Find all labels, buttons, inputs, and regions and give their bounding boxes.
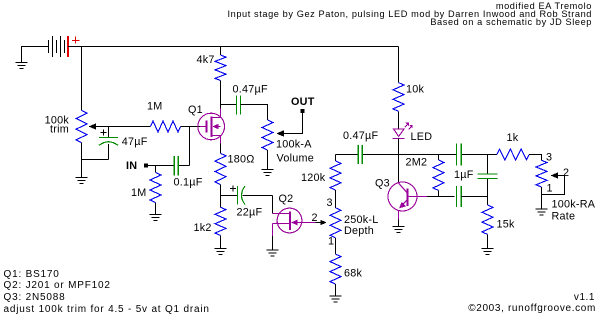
svg-text:Depth: Depth <box>344 225 374 237</box>
wire IN to cap <box>148 165 175 167</box>
resistor 10k <box>393 83 404 112</box>
svg-text:15k: 15k <box>497 219 516 231</box>
label 47uF <box>122 136 148 148</box>
version label bottom right <box>574 293 595 303</box>
resistor 120k <box>330 161 341 190</box>
label 250k-L <box>344 214 379 226</box>
svg-text:68k: 68k <box>344 268 363 280</box>
label 2M2 <box>406 157 428 169</box>
svg-text:1: 1 <box>547 183 553 195</box>
ground under 1M shunt <box>150 203 162 221</box>
svg-text:1: 1 <box>328 235 334 247</box>
ground under Q2 <box>267 236 279 256</box>
input terminal dot <box>144 164 148 168</box>
wire cap to volume pot <box>241 105 268 121</box>
label 4k7 <box>197 54 215 66</box>
svg-text:OUT: OUT <box>291 96 315 108</box>
label 3 (depth) <box>327 197 333 209</box>
capacitor C phase bottom (base) <box>457 186 462 207</box>
capacitor C phase middle (vertical) <box>478 174 498 179</box>
label 3 (rate) <box>546 152 552 164</box>
wire 1M to Q1 gate <box>181 126 201 128</box>
label Q1 <box>188 104 203 116</box>
label Volume <box>277 152 315 164</box>
svg-text:0.47µF: 0.47µF <box>233 83 268 95</box>
svg-text:LED: LED <box>411 131 433 143</box>
svg-text:2: 2 <box>312 212 318 224</box>
transistor Q3 2N5088 <box>388 182 427 220</box>
svg-text:Rate: Rate <box>552 210 576 222</box>
resistor 15k <box>482 205 493 234</box>
label 1 (depth) <box>328 235 334 247</box>
svg-text:2M2: 2M2 <box>406 157 428 169</box>
wire V+ rail <box>68 46 399 48</box>
label 120k <box>301 172 326 184</box>
svg-text:Q1: Q1 <box>188 104 203 116</box>
potentiometer 100k-A Volume <box>262 120 273 150</box>
svg-text:100k-A: 100k-A <box>276 139 312 151</box>
label 22uF <box>237 207 263 219</box>
capacitor C 22uF electrolytic <box>230 186 273 205</box>
label Rate <box>552 210 576 222</box>
svg-text:1k2: 1k2 <box>194 222 212 234</box>
ground under Q3 <box>393 220 405 233</box>
capacitor C 47uF electrolytic <box>99 127 118 160</box>
label 180R <box>228 154 255 166</box>
wire battery minus lead <box>21 46 48 48</box>
wire 120k to depth <box>335 190 337 208</box>
wire gate junction down <box>179 127 190 166</box>
ground under rate pot <box>536 195 548 216</box>
rate wiper arrow / return wire <box>542 172 565 194</box>
ground under 1k2 <box>215 235 227 254</box>
svg-text:Volume: Volume <box>277 152 315 164</box>
capacitor C 0.1uF <box>174 156 178 176</box>
ground under 68k <box>330 284 342 302</box>
label 1uF <box>454 169 474 181</box>
label 100k trim <box>45 115 70 136</box>
svg-text:47µF: 47µF <box>122 136 148 148</box>
resistor 1M (input shunt) <box>150 166 161 203</box>
wire 10k to LED <box>398 111 400 129</box>
ground under 15k <box>482 234 494 254</box>
wire Q1 drain to node <box>220 105 222 109</box>
svg-text:3: 3 <box>546 152 552 164</box>
ground (battery minus) <box>16 47 28 69</box>
wire 180R to 1k2 <box>220 185 222 208</box>
wire Q3 base line <box>427 196 455 198</box>
wire Q2 gate to depth wiper <box>316 220 327 226</box>
notes block bottom left <box>4 269 210 317</box>
svg-text:3: 3 <box>327 197 333 209</box>
label 68k <box>344 268 363 280</box>
svg-text:Q3: Q3 <box>375 178 390 190</box>
wire Q1 source to 180R <box>220 144 222 154</box>
volume wiper arrow / OUT wire <box>276 111 302 137</box>
svg-text:0.1µF: 0.1µF <box>174 176 203 188</box>
title block top right <box>227 2 592 27</box>
wire bus node down <box>487 155 489 206</box>
resistor 4k7 <box>215 47 226 105</box>
ground under volume <box>262 150 274 176</box>
label 100k-A <box>276 139 312 151</box>
label 10k <box>406 84 425 96</box>
capacitor C 0.47uF (output) <box>237 95 241 114</box>
battery plus sign (red) <box>72 37 80 44</box>
capacitor C phase top (bus) <box>457 144 462 166</box>
copyright bottom right <box>468 304 596 314</box>
label Depth <box>344 225 374 237</box>
wire drain node to cap <box>221 104 237 106</box>
wire rail to trim <box>81 47 83 111</box>
wire bus to 1k <box>488 154 497 156</box>
svg-text:180Ω: 180Ω <box>228 154 255 166</box>
wire depth to 68k <box>335 238 337 254</box>
potentiometer 100k-RA Rate <box>536 160 547 187</box>
battery plus plate (red) <box>67 36 69 57</box>
label 0.47uF output <box>233 83 268 95</box>
label LED <box>411 131 433 143</box>
OUT terminal dot <box>301 109 305 113</box>
wire LFO bus <box>336 154 488 156</box>
label 1M shunt <box>131 187 147 199</box>
transistor Q2 J201 <box>273 208 316 236</box>
trim wiper arrow <box>89 123 151 129</box>
svg-text:120k: 120k <box>301 172 326 184</box>
label 2 (rate) <box>563 167 569 179</box>
svg-text:IN: IN <box>126 160 137 172</box>
battery B1 9V <box>49 36 65 57</box>
wire rate pot bottom <box>541 187 543 195</box>
label 1 (rate) <box>547 183 553 195</box>
diode LED <box>393 123 413 139</box>
svg-text:trim: trim <box>50 124 69 136</box>
wire trim bottom <box>81 143 109 160</box>
resistor 68k <box>330 254 341 284</box>
resistor 2M2 <box>433 155 444 197</box>
svg-text:Q2: Q2 <box>279 193 294 205</box>
wire bus corner to 120k <box>335 155 337 162</box>
label 0.1uF <box>174 176 203 188</box>
wire LED to bus to Q3 <box>398 139 400 184</box>
label 0.47uF LFO <box>343 130 378 142</box>
trimpot 100k trim <box>76 111 87 143</box>
wire 22uF to Q2 drain <box>272 196 274 214</box>
label Q2 <box>279 193 294 205</box>
svg-text:0.47µF: 0.47µF <box>343 130 378 142</box>
label 1M series <box>147 101 163 113</box>
potentiometer 250k-L Depth <box>330 208 341 238</box>
label 2 (depth wiper) <box>312 212 318 224</box>
wire base line to 15k node <box>461 196 488 198</box>
transistor Q1 BS170 <box>198 108 225 144</box>
resistor 1k2 <box>215 207 226 235</box>
label 1k <box>507 132 519 144</box>
wire 1k to rate pot <box>529 155 541 161</box>
svg-text:22µF: 22µF <box>237 207 263 219</box>
label Q3 <box>375 178 390 190</box>
ground under trim <box>76 160 88 184</box>
svg-text:4k7: 4k7 <box>197 54 215 66</box>
wire source node to 22uF <box>221 195 238 197</box>
svg-text:1M: 1M <box>131 187 147 199</box>
resistor 180R <box>215 153 226 184</box>
label 1k2 <box>194 222 212 234</box>
label 15k <box>497 219 516 231</box>
resistor 1M (series) <box>151 121 181 132</box>
svg-text:250k-L: 250k-L <box>344 214 379 226</box>
svg-text:1M: 1M <box>147 101 163 113</box>
wire rail corner to 10k <box>398 47 400 83</box>
label IN <box>126 160 137 172</box>
label 100k-RA <box>552 199 596 211</box>
svg-text:100k-RA: 100k-RA <box>552 199 596 211</box>
svg-text:1µF: 1µF <box>454 169 474 181</box>
resistor 1k <box>497 149 529 160</box>
capacitor C 0.47uF (LFO bus) <box>358 145 362 164</box>
svg-text:2: 2 <box>563 167 569 179</box>
svg-text:10k: 10k <box>406 84 425 96</box>
svg-text:1k: 1k <box>507 132 519 144</box>
label OUT <box>291 96 315 108</box>
